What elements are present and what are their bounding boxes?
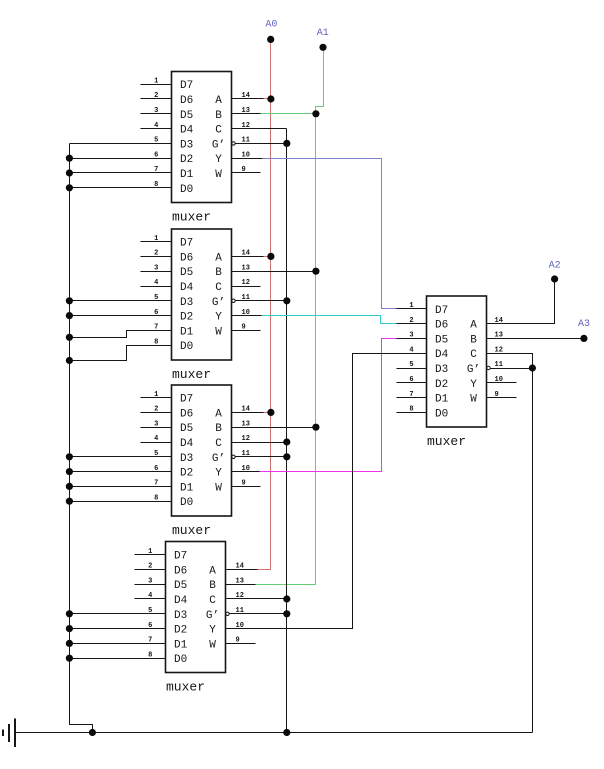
junction bus / U3 pin11 <box>283 453 290 460</box>
wire U4 pin12 C to bus <box>226 598 287 600</box>
svg-text:Y: Y <box>215 468 222 480</box>
svg-text:D6: D6 <box>180 252 193 264</box>
ground symbol bar 1 <box>14 719 16 748</box>
wire U3 pin5 to left bus <box>70 456 172 458</box>
svg-text:Y: Y <box>209 625 216 637</box>
svg-text:6: 6 <box>154 151 158 159</box>
wire red A0 tail at U2 pin14 <box>264 256 271 258</box>
wire U5 pin12 C to ground wire <box>487 354 533 733</box>
wire U1 pin6 to left bus <box>70 158 172 160</box>
svg-text:D5: D5 <box>180 267 193 279</box>
junction A1 net / U1 pin13 <box>312 110 319 117</box>
mux U1 body <box>172 72 232 203</box>
junction left bus / U1 pin6 <box>66 155 73 162</box>
svg-text:D0: D0 <box>180 497 193 509</box>
svg-text:4: 4 <box>154 435 158 443</box>
svg-text:A0: A0 <box>265 19 277 30</box>
ground symbol bar 2 <box>8 724 10 742</box>
svg-text:W: W <box>215 482 222 494</box>
U1 pin13 B stub <box>232 113 261 115</box>
svg-text:D3: D3 <box>180 297 193 309</box>
junction left bus / U3 pin7 <box>66 483 73 490</box>
svg-text:D5: D5 <box>180 423 193 435</box>
svg-text:4: 4 <box>154 279 158 287</box>
junction left bus / U4 pin5 <box>66 610 73 617</box>
junction A1 net / U2 pin13 <box>312 268 319 275</box>
svg-text:D6: D6 <box>180 95 193 107</box>
wire U4 pin6 to left bus <box>70 628 166 630</box>
U1 pin10 Y stub <box>232 158 263 160</box>
svg-text:3: 3 <box>409 332 413 340</box>
svg-text:G’: G’ <box>467 364 480 376</box>
junction U5 pin11 / pin12 net <box>529 364 536 371</box>
U5 input stub pin 1 <box>397 308 427 310</box>
svg-text:4: 4 <box>148 592 152 600</box>
svg-text:8: 8 <box>154 338 158 346</box>
svg-text:7: 7 <box>154 166 158 174</box>
svg-text:D2: D2 <box>174 625 187 637</box>
svg-text:C: C <box>215 125 222 137</box>
svg-text:G’: G’ <box>206 610 219 622</box>
wire U1 pin5 to left bus <box>70 143 172 145</box>
svg-text:muxer: muxer <box>427 434 466 449</box>
U4 input stub pin 3 <box>135 584 166 586</box>
svg-text:8: 8 <box>148 651 152 659</box>
wire U3 pin6 to left bus <box>70 471 172 473</box>
junction A0 net / U3 pin14 <box>267 409 274 416</box>
wire U5 pin14 A to A2 <box>487 279 555 324</box>
svg-text:D7: D7 <box>180 238 193 250</box>
wire U3 pin11 G-bar to bus <box>236 456 287 458</box>
junction A0 net / U1 pin14 <box>267 95 274 102</box>
svg-text:muxer: muxer <box>166 680 205 695</box>
wire U4 pin8 to left bus <box>70 658 166 660</box>
wire green net A1 vertical with jog <box>256 48 324 585</box>
junction bus / U2 pin11 <box>283 297 290 304</box>
svg-text:D6: D6 <box>180 408 193 420</box>
U2 input stub pin 1 <box>141 241 172 243</box>
U1 pin14 A stub <box>232 98 264 100</box>
svg-text:D4: D4 <box>180 438 194 450</box>
svg-text:muxer: muxer <box>172 210 211 225</box>
junction left bus / U2 pin6 <box>66 312 73 319</box>
svg-text:1: 1 <box>154 77 158 85</box>
mux U2 body <box>172 229 232 360</box>
U2 pin9 W stub <box>232 330 261 332</box>
U3 pin10 Y stub <box>232 471 260 473</box>
svg-text:7: 7 <box>409 391 413 399</box>
wire U2 pin11 G-bar to bus <box>236 300 287 302</box>
svg-text:D5: D5 <box>435 334 448 346</box>
junction A0 net / U2 pin14 <box>267 253 274 260</box>
U4 pin13 B stub <box>226 584 256 586</box>
svg-text:5: 5 <box>148 607 152 615</box>
junction bus / U4 pin11 <box>283 610 290 617</box>
svg-text:D1: D1 <box>174 639 188 651</box>
svg-text:D2: D2 <box>180 468 193 480</box>
svg-text:12: 12 <box>495 346 503 354</box>
svg-text:C: C <box>215 282 222 294</box>
U2 G-bar inverter bubble <box>232 299 235 302</box>
junction left bus / U1 pin7 <box>66 169 73 176</box>
svg-text:D1: D1 <box>180 326 194 338</box>
svg-text:4: 4 <box>154 122 158 130</box>
svg-text:9: 9 <box>495 391 499 399</box>
svg-text:4: 4 <box>409 346 413 354</box>
svg-text:A: A <box>209 565 216 577</box>
wire U2 pin8 jog to left bus <box>70 346 172 361</box>
U1 G-bar inverter bubble <box>232 142 235 145</box>
svg-text:2: 2 <box>409 317 413 325</box>
U5 input stub pin 8 <box>397 412 427 414</box>
wire U3 pin12 C to bus <box>232 442 287 444</box>
svg-text:C: C <box>215 438 222 450</box>
mux U4 body <box>166 542 226 673</box>
junction left bus / U4 pin8 <box>66 655 73 662</box>
junction bus / U1 pin11 <box>283 140 290 147</box>
svg-text:9: 9 <box>242 480 246 488</box>
svg-text:D1: D1 <box>180 169 194 181</box>
svg-text:9: 9 <box>242 324 246 332</box>
U3 pin9 W stub <box>232 486 261 488</box>
wire U2 pin13 B to A1 net <box>232 271 316 273</box>
svg-text:5: 5 <box>154 137 158 145</box>
svg-text:D1: D1 <box>180 482 194 494</box>
svg-text:D0: D0 <box>180 184 193 196</box>
svg-text:11: 11 <box>495 361 503 369</box>
svg-text:D3: D3 <box>435 364 448 376</box>
U2 pin10 Y stub <box>232 315 262 317</box>
svg-text:2: 2 <box>154 92 158 100</box>
svg-text:1: 1 <box>154 391 158 399</box>
U5 pin9 W stub <box>487 397 517 399</box>
wire U5 pin13 B to A3 <box>487 338 584 340</box>
svg-text:14: 14 <box>236 563 244 571</box>
junction A1 net / U3 pin13 <box>312 424 319 431</box>
junction left bus / U2 pin7 <box>66 334 73 341</box>
svg-text:14: 14 <box>242 250 250 258</box>
svg-text:3: 3 <box>154 264 158 272</box>
wire U4.Y to U5.D4 <box>226 354 427 629</box>
svg-text:7: 7 <box>148 637 152 645</box>
wire red A0 tail at U1 pin14 <box>264 98 271 100</box>
wire U3 pin8 to left bus <box>70 501 172 503</box>
junction left bus / U1 pin8 <box>66 184 73 191</box>
svg-text:Y: Y <box>470 379 477 391</box>
svg-text:1: 1 <box>154 235 158 243</box>
U5 input stub pin 2 <box>397 323 427 325</box>
U3 input stub pin 1 <box>141 397 172 399</box>
svg-text:3: 3 <box>154 420 158 428</box>
svg-text:7: 7 <box>154 324 158 332</box>
U2 pin12 C stub <box>232 286 261 288</box>
wire red A0 tail at U3 pin14 <box>264 412 271 414</box>
junction left bus / U3 pin8 <box>66 498 73 505</box>
svg-text:D6: D6 <box>174 565 187 577</box>
svg-text:6: 6 <box>409 376 413 384</box>
svg-text:11: 11 <box>236 607 244 615</box>
svg-text:W: W <box>209 639 216 651</box>
svg-text:C: C <box>209 595 216 607</box>
svg-text:W: W <box>215 169 222 181</box>
svg-text:D4: D4 <box>435 349 449 361</box>
U5 pin10 Y stub <box>487 382 517 384</box>
svg-text:D7: D7 <box>180 80 193 92</box>
wire U4 pin5 to left bus <box>70 613 166 615</box>
svg-text:D3: D3 <box>180 453 193 465</box>
mux U3 body <box>172 385 232 516</box>
junction left bus / U3 pin6 <box>66 468 73 475</box>
wire U1 pin8 to left bus <box>70 187 172 189</box>
svg-text:9: 9 <box>242 166 246 174</box>
mux U5 body <box>427 296 487 427</box>
U5 input stub pin 5 <box>397 368 427 370</box>
svg-text:C: C <box>470 349 477 361</box>
U1 input stub pin 4 <box>141 128 172 130</box>
U2 input stub pin 3 <box>141 271 172 273</box>
svg-text:W: W <box>470 394 477 406</box>
svg-text:D0: D0 <box>174 654 187 666</box>
wire left vertical bus <box>70 144 93 733</box>
junction left bus / U4 pin6 <box>66 625 73 632</box>
junction bus / U4 pin12 <box>283 595 290 602</box>
junction left bus / U2 pin8 <box>66 357 73 364</box>
svg-text:10: 10 <box>495 376 503 384</box>
svg-text:1: 1 <box>148 548 152 556</box>
svg-text:12: 12 <box>236 592 244 600</box>
U3 input stub pin 4 <box>141 442 172 444</box>
svg-text:D1: D1 <box>435 394 449 406</box>
svg-text:B: B <box>215 423 222 435</box>
U4 input stub pin 4 <box>135 598 166 600</box>
svg-text:A: A <box>470 320 477 332</box>
svg-text:D0: D0 <box>180 341 193 353</box>
svg-text:14: 14 <box>242 92 250 100</box>
svg-text:D3: D3 <box>180 139 193 151</box>
U4 G-bar inverter bubble <box>226 612 229 615</box>
wire U1 pin11 G-bar to bus <box>236 143 287 145</box>
svg-text:G’: G’ <box>212 297 225 309</box>
svg-text:D2: D2 <box>435 379 448 391</box>
wire U2 pin5 to left bus <box>70 300 172 302</box>
wire U4 pin7 to left bus <box>70 643 166 645</box>
svg-text:14: 14 <box>495 317 503 325</box>
wire ground net (bottom) <box>15 732 533 734</box>
svg-text:6: 6 <box>154 309 158 317</box>
junction left bus / ground wire <box>89 729 96 736</box>
wire U2 pin6 to left bus <box>70 315 172 317</box>
wire red net A0 vertical <box>258 40 271 570</box>
wire U2 pin7 jog to left bus <box>70 331 172 338</box>
wire U4 pin11 G-bar to bus <box>230 613 287 615</box>
U1 input stub pin 2 <box>141 98 172 100</box>
U3 G-bar inverter bubble <box>232 455 235 458</box>
wire U3 pin13 B to A1 net <box>232 427 316 429</box>
U4 input stub pin 2 <box>135 569 166 571</box>
node A1 terminal dot <box>319 44 326 51</box>
svg-text:3: 3 <box>154 107 158 115</box>
svg-text:D5: D5 <box>180 110 193 122</box>
svg-text:10: 10 <box>236 622 244 630</box>
svg-text:D4: D4 <box>174 595 188 607</box>
svg-text:D7: D7 <box>435 305 448 317</box>
svg-text:A3: A3 <box>578 319 590 330</box>
svg-text:8: 8 <box>409 406 413 414</box>
U4 input stub pin 1 <box>135 554 166 556</box>
U5 input stub pin 7 <box>397 397 427 399</box>
svg-text:2: 2 <box>154 250 158 258</box>
node A2 terminal dot <box>551 275 558 282</box>
U3 input stub pin 2 <box>141 412 172 414</box>
U5 input stub pin 3 <box>397 338 427 340</box>
U2 input stub pin 4 <box>141 286 172 288</box>
svg-text:B: B <box>209 580 216 592</box>
U2 input stub pin 2 <box>141 256 172 258</box>
svg-text:A: A <box>215 408 222 420</box>
U2 pin14 A stub <box>232 256 264 258</box>
svg-text:1: 1 <box>409 302 413 310</box>
svg-text:B: B <box>215 110 222 122</box>
wire C/G-bar vertical bus <box>286 129 288 733</box>
svg-text:8: 8 <box>154 494 158 502</box>
svg-text:D2: D2 <box>180 154 193 166</box>
wire blue net U1.Y to U5.D7 <box>263 159 397 309</box>
junction left bus / U3 pin5 <box>66 453 73 460</box>
junction bus / U3 pin12 <box>283 438 290 445</box>
U1 input stub pin 1 <box>141 84 172 86</box>
svg-text:2: 2 <box>154 406 158 414</box>
svg-text:G’: G’ <box>212 139 225 151</box>
U5 input stub pin 6 <box>397 382 427 384</box>
svg-text:5: 5 <box>154 450 158 458</box>
svg-text:B: B <box>215 267 222 279</box>
wire U3 pin7 to left bus <box>70 486 172 488</box>
junction left bus / U2 pin5 <box>66 297 73 304</box>
svg-text:5: 5 <box>409 361 413 369</box>
U3 input stub pin 3 <box>141 427 172 429</box>
U1 pin9 W stub <box>232 172 261 174</box>
svg-text:7: 7 <box>154 480 158 488</box>
svg-text:D3: D3 <box>174 610 187 622</box>
junction left bus / U4 pin7 <box>66 640 73 647</box>
U3 pin14 A stub <box>232 412 264 414</box>
U4 pin14 A stub <box>226 569 258 571</box>
U5 G-bar inverter bubble <box>487 366 490 369</box>
svg-text:Y: Y <box>215 312 222 324</box>
svg-text:muxer: muxer <box>172 367 211 382</box>
node A3 terminal dot <box>580 335 587 342</box>
svg-text:D7: D7 <box>174 551 187 563</box>
svg-text:D0: D0 <box>435 408 448 420</box>
wire cyan net U2.Y to U5.D6 <box>262 316 397 324</box>
svg-text:9: 9 <box>236 637 240 645</box>
wire U5 pin11 G-bar to pin12 net <box>491 368 533 370</box>
svg-text:B: B <box>470 334 477 346</box>
svg-text:A: A <box>215 252 222 264</box>
svg-text:A: A <box>215 95 222 107</box>
svg-text:D4: D4 <box>180 282 194 294</box>
wire magenta net U3.Y to U5.D5 <box>260 339 397 472</box>
svg-text:D6: D6 <box>435 320 448 332</box>
ground symbol bar 3 <box>2 730 4 737</box>
svg-text:D5: D5 <box>174 580 187 592</box>
svg-text:13: 13 <box>495 332 503 340</box>
svg-text:A2: A2 <box>549 261 561 272</box>
wire green A1 tail at U1 pin13 <box>261 113 316 115</box>
svg-text:D4: D4 <box>180 125 194 137</box>
svg-text:D7: D7 <box>180 394 193 406</box>
U4 pin9 W stub <box>226 643 256 645</box>
svg-text:muxer: muxer <box>172 523 211 538</box>
node A0 terminal dot <box>267 36 274 43</box>
svg-text:A1: A1 <box>317 28 329 39</box>
wire U1 pin7 to left bus <box>70 172 172 174</box>
svg-text:8: 8 <box>154 181 158 189</box>
junction C bus / ground wire <box>283 729 290 736</box>
svg-text:5: 5 <box>154 294 158 302</box>
svg-text:Y: Y <box>215 154 222 166</box>
U1 input stub pin 3 <box>141 113 172 115</box>
svg-text:G’: G’ <box>212 453 225 465</box>
wire U1 pin12 C to C/G-bar bus <box>232 128 287 130</box>
svg-text:14: 14 <box>242 406 250 414</box>
svg-text:13: 13 <box>236 577 244 585</box>
svg-text:6: 6 <box>148 622 152 630</box>
svg-text:D2: D2 <box>180 312 193 324</box>
svg-text:2: 2 <box>148 563 152 571</box>
svg-text:3: 3 <box>148 577 152 585</box>
svg-text:6: 6 <box>154 465 158 473</box>
svg-text:W: W <box>215 326 222 338</box>
